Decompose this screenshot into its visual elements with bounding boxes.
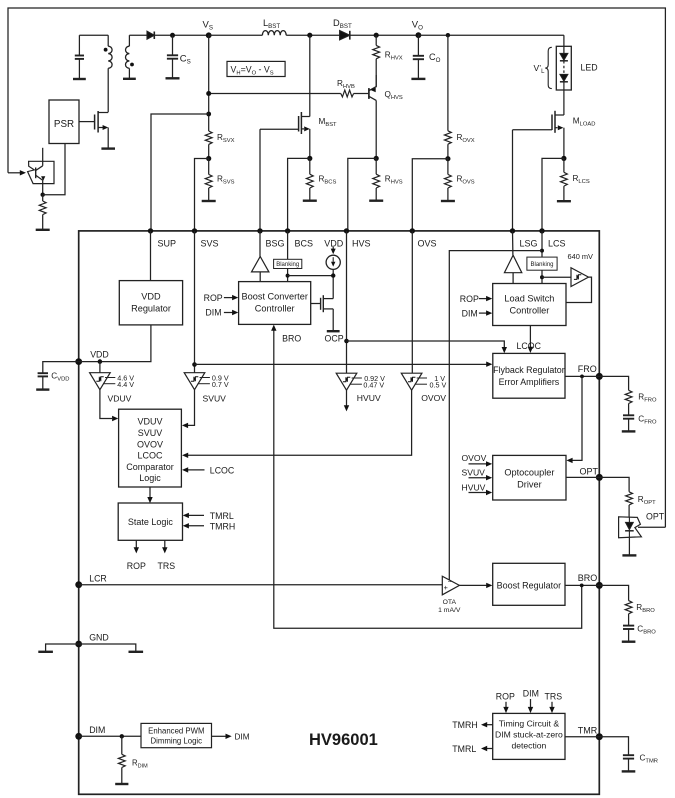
- block State Logic: [118, 503, 182, 540]
- wire GND right internal: [79, 644, 136, 651]
- ground (R-DIM): [115, 783, 128, 785]
- node M-LOAD source junction: [561, 156, 566, 161]
- wire HVS to flyback error amp: [347, 341, 508, 353]
- label DIM input load switch: [462, 308, 493, 318]
- svg-text:SUP: SUP: [158, 239, 177, 249]
- node BRO branch: [580, 584, 584, 588]
- node VS mid-rail junction: [206, 91, 211, 96]
- svg-text:OVOV: OVOV: [462, 453, 487, 463]
- svg-text:GND: GND: [89, 633, 109, 643]
- svg-text:SVUV: SVUV: [462, 467, 486, 477]
- wire SVUV output to comparator logic: [182, 390, 195, 428]
- svg-text:Enhanced PWM: Enhanced PWM: [148, 726, 204, 735]
- wire SVS sense: [195, 159, 209, 231]
- node R-OVX tap on rail: [446, 33, 450, 37]
- svg-text:640 mV: 640 mV: [568, 252, 594, 261]
- wire VO rail to LED string: [418, 34, 564, 36]
- node R-DIM tap: [120, 734, 124, 738]
- wire BRO feedback into boost controller: [271, 325, 582, 629]
- capacitor CS: [167, 35, 191, 77]
- ground (R-LCS): [557, 200, 571, 202]
- node BCS/OCP junction: [286, 274, 290, 278]
- svg-text:State Logic: State Logic: [128, 517, 174, 527]
- wire BRO output: [565, 584, 599, 586]
- ground (opto resistor): [36, 229, 50, 231]
- resistor R-SVX divider top: [205, 35, 234, 158]
- wire BCS sense: [288, 158, 310, 231]
- svg-text:LSG: LSG: [520, 239, 538, 249]
- svg-text:LED: LED: [581, 62, 598, 72]
- resistor R-LCS: [561, 158, 590, 200]
- LED diode 2: [560, 74, 568, 90]
- pin HVS: [344, 228, 371, 248]
- ground (GND internal): [129, 651, 144, 653]
- wire LCS to 640mV comparator: [542, 276, 571, 278]
- node VS: [203, 19, 213, 38]
- resistor R-BRO: [599, 585, 655, 625]
- capacitor C-FRO: [623, 414, 657, 430]
- svg-text:TMRH: TMRH: [210, 521, 235, 531]
- pin OPT: [580, 466, 603, 481]
- label HVUV input opto: [462, 482, 493, 495]
- wire LCS riser through blanking: [541, 231, 543, 284]
- ground (C-TMR): [622, 770, 636, 772]
- svg-text:OVOV: OVOV: [137, 439, 163, 449]
- svg-text:Timing Circuit &: Timing Circuit &: [499, 718, 560, 728]
- pin BCS: [285, 228, 313, 248]
- pin BRO: [578, 573, 603, 589]
- OTA amplifier: [438, 576, 461, 614]
- transformer T1 primary winding: [108, 35, 112, 112]
- svg-text:Error Amplifiers: Error Amplifiers: [499, 377, 560, 387]
- svg-text:HVUV: HVUV: [357, 393, 381, 403]
- block Comparator Logic: [119, 409, 182, 487]
- transistor Q-HVS (PNP): [369, 75, 403, 158]
- node LCS comparator tap: [540, 275, 544, 279]
- gate driver triangle LSG: [504, 231, 521, 284]
- svg-text:HVUV: HVUV: [462, 482, 486, 492]
- IC HV96001 outline: [79, 231, 600, 794]
- resistor R-OVX divider top: [445, 35, 475, 159]
- svg-text:LCR: LCR: [89, 573, 107, 583]
- svg-text:TRS: TRS: [158, 561, 176, 571]
- wire OVS sense: [412, 159, 448, 231]
- optocoupler OPT LED: [619, 511, 665, 537]
- transistor OCP FET: [311, 295, 334, 330]
- ground (R-SVS): [202, 200, 216, 202]
- svg-text:HV96001: HV96001: [309, 731, 378, 749]
- ground (C-FRO): [622, 430, 636, 432]
- wire OVOV output to comparator logic: [182, 390, 412, 458]
- svg-text:VDUV: VDUV: [108, 394, 132, 404]
- svg-text:VDD: VDD: [90, 349, 109, 359]
- wire SVS to flyback error amp: [195, 362, 493, 367]
- svg-text:Blanking: Blanking: [530, 262, 553, 268]
- svg-text:Blanking: Blanking: [276, 262, 299, 268]
- svg-text:OPT: OPT: [580, 466, 599, 476]
- node Cs junction: [170, 33, 175, 38]
- ground (C-BRO): [622, 641, 636, 643]
- current source VDD (OCP bias): [326, 247, 340, 299]
- svg-text:TMR: TMR: [578, 725, 598, 735]
- svg-text:1 mA/V: 1 mA/V: [438, 607, 461, 614]
- wire BCS riser through blanking: [287, 231, 289, 282]
- wire HVUV output arrow: [344, 390, 349, 411]
- wire FRO output: [565, 375, 599, 377]
- ground (secondary): [123, 78, 136, 80]
- transistor M-BST (boost switch): [260, 35, 337, 158]
- svg-text:DIM stuck-at-zero: DIM stuck-at-zero: [495, 729, 563, 739]
- transistor M-LOAD (load switch): [513, 90, 596, 158]
- svg-text:PSR: PSR: [54, 119, 74, 130]
- svg-text:BRO: BRO: [282, 334, 301, 344]
- label DIM input timing: [523, 689, 539, 714]
- svg-text:Driver: Driver: [517, 479, 542, 489]
- svg-text:TMRL: TMRL: [210, 511, 234, 521]
- svg-text:LCOC: LCOC: [210, 465, 235, 475]
- label TRS input timing: [545, 691, 563, 713]
- label TMRH stub input: [183, 521, 236, 531]
- block Blanking (boost): [274, 259, 302, 268]
- svg-text:ROP: ROP: [496, 691, 515, 701]
- svg-text:SVUV: SVUV: [138, 428, 163, 438]
- wire BSG riser: [259, 129, 261, 231]
- svg-text:0.7 V: 0.7 V: [212, 380, 229, 389]
- svg-text:DIM: DIM: [205, 308, 221, 318]
- label HVUV: [357, 393, 381, 403]
- wire BCS to current source node: [288, 275, 334, 277]
- wire HVS sense: [348, 158, 376, 231]
- resistor R-DIM: [118, 736, 148, 783]
- svg-text:LCOC: LCOC: [517, 341, 542, 351]
- pin LSG: [510, 228, 538, 248]
- wire comparator logic to state logic: [147, 487, 152, 503]
- svg-text:Comparator: Comparator: [126, 462, 174, 472]
- label VDUV: [108, 394, 132, 404]
- pin GND: [75, 633, 108, 648]
- label OVOV: [421, 393, 446, 403]
- LED diode 1: [560, 53, 568, 60]
- wire TRS output state logic: [158, 540, 176, 571]
- wire LED dashed segment: [563, 61, 565, 74]
- comparator 640 mV: [566, 252, 593, 303]
- wire ROP output state logic: [127, 540, 146, 571]
- ground (GND external): [38, 651, 53, 653]
- svg-text:Regulator: Regulator: [131, 304, 171, 314]
- svg-text:ROP: ROP: [127, 561, 146, 571]
- node junction opto emitter / PSR: [41, 193, 45, 197]
- ground (R-HVS): [369, 199, 383, 201]
- ground (R-OVS): [441, 200, 455, 202]
- svg-text:SVS: SVS: [201, 239, 219, 249]
- node Q-HVS collector junction: [374, 156, 379, 161]
- block Optocoupler Driver: [493, 455, 566, 500]
- pin BSG: [257, 228, 284, 248]
- box V-H equation: [227, 61, 285, 76]
- block Enhanced PWM Dimming Logic: [141, 723, 212, 747]
- block Flyback Regulator Error Amplifiers: [493, 353, 565, 398]
- node VO: [412, 19, 423, 38]
- svg-text:BCS: BCS: [295, 239, 314, 249]
- comparator VDUV: [90, 362, 135, 390]
- svg-text:0.5 V: 0.5 V: [430, 380, 447, 389]
- wire GND left external: [46, 644, 79, 651]
- wire VDD Regulator output to VDD rail: [79, 325, 151, 362]
- svg-text:Boost Converter: Boost Converter: [242, 291, 308, 301]
- wire OPT output: [566, 476, 599, 478]
- wire opto LED cathode to ground: [628, 538, 630, 555]
- block PSR controller: [49, 100, 79, 144]
- capacitor input bulk (unlabeled): [75, 35, 84, 78]
- node R-SVX/R-SVS junction: [206, 156, 211, 161]
- resistor R-FRO: [599, 376, 657, 415]
- wire LSG riser: [512, 130, 514, 231]
- node R-OVX/R-OVS junction: [445, 156, 450, 161]
- svg-text:BSG: BSG: [266, 239, 285, 249]
- ground (C-VDD): [36, 388, 49, 390]
- svg-text:OTA: OTA: [443, 599, 457, 606]
- svg-text:TRS: TRS: [545, 691, 563, 701]
- label ROP input timing: [496, 691, 515, 713]
- wire OTA output to boost regulator: [459, 583, 492, 588]
- resistor (opto emitter, unlabeled): [39, 195, 46, 229]
- comparator SVUV: [184, 231, 229, 390]
- label TMRL stub input: [183, 511, 234, 521]
- svg-text:0.47 V: 0.47 V: [363, 380, 384, 389]
- svg-text:TMRL: TMRL: [452, 744, 476, 754]
- wire LCOC output: [517, 326, 542, 354]
- node M-BST drain on rail: [307, 33, 312, 38]
- wire SUP connection: [151, 114, 209, 231]
- inductor L-BST: [262, 18, 286, 35]
- node LCS to OTA tap: [540, 249, 544, 253]
- svg-text:−: −: [448, 579, 452, 586]
- svg-text:DIM: DIM: [523, 689, 539, 699]
- label DIM input boost: [205, 308, 238, 318]
- svg-text:Flyback Regulator: Flyback Regulator: [493, 365, 565, 375]
- ground (CS): [166, 77, 180, 79]
- block Timing Circuit & DIM stuck-at-zero detection: [493, 713, 565, 759]
- comparator OVOV: [401, 231, 446, 390]
- transistor M-PSR (primary switch): [79, 111, 108, 148]
- pin TMR: [578, 725, 603, 740]
- opto-transistor (PSR feedback photocoupler): [28, 148, 54, 195]
- phase dot primary: [104, 48, 108, 52]
- block Load Switch Controller: [493, 284, 566, 326]
- LED string box: [556, 46, 571, 90]
- svg-text:Logic: Logic: [139, 473, 161, 483]
- resistor R-HVX: [373, 35, 403, 87]
- resistor R-HVB: [209, 79, 369, 97]
- wire outer optical feedback loop (top/left/right): [8, 8, 665, 527]
- pin LCR: [75, 573, 107, 588]
- svg-text:4.4 V: 4.4 V: [117, 380, 134, 389]
- wire DIM output arrow: [212, 733, 250, 742]
- capacitor CO: [413, 35, 441, 78]
- node M-BST source junction: [307, 156, 312, 161]
- wire TMR output: [565, 736, 599, 738]
- svg-text:detection: detection: [511, 740, 546, 750]
- block VDD Regulator: [119, 281, 182, 325]
- ground (OCP): [325, 331, 344, 343]
- wire rail into LED string: [563, 35, 565, 53]
- resistor R-SVS: [205, 159, 234, 201]
- svg-text:SVUV: SVUV: [203, 394, 227, 404]
- pin DIM-left: [75, 725, 105, 740]
- pin SVS: [192, 228, 219, 248]
- svg-text:HVS: HVS: [352, 239, 371, 249]
- svg-text:DIM: DIM: [235, 733, 250, 742]
- wire DIM to dimming logic: [79, 735, 141, 737]
- svg-text:Controller: Controller: [255, 303, 295, 313]
- label BRO at boost controller: [282, 334, 301, 344]
- capacitor C-VDD: [38, 362, 79, 389]
- node SVS to flyback tap: [192, 362, 197, 367]
- wire LCS sense: [542, 158, 564, 231]
- pin SUP: [148, 228, 176, 248]
- svg-text:VDUV: VDUV: [137, 417, 162, 427]
- svg-text:Optocoupler: Optocoupler: [504, 467, 554, 477]
- gate driver triangle BSG: [252, 231, 269, 282]
- svg-text:OVOV: OVOV: [421, 393, 446, 403]
- wire SUP riser to VDD Regulator: [150, 231, 152, 281]
- transformer T1 secondary winding: [125, 35, 147, 78]
- svg-text:Dimming Logic: Dimming Logic: [151, 736, 203, 745]
- svg-text:OVS: OVS: [418, 239, 437, 249]
- label LCOC stub input: [182, 465, 235, 475]
- block Boost Regulator: [493, 563, 565, 605]
- wire VS rail to boost inductor: [209, 34, 263, 36]
- wire arrow into opto-transistor U-PSR: [8, 170, 26, 175]
- svg-text:LCS: LCS: [548, 239, 566, 249]
- svg-text:DIM: DIM: [89, 725, 105, 735]
- pin VDD label: [324, 239, 344, 249]
- label TMRL output: [452, 744, 492, 754]
- svg-text:OCP: OCP: [325, 334, 344, 344]
- svg-text:Controller: Controller: [509, 305, 549, 315]
- svg-text:BRO: BRO: [578, 573, 598, 583]
- resistor R-HVS: [373, 158, 403, 200]
- label ROP input boost: [204, 293, 239, 303]
- svg-text:ROP: ROP: [460, 294, 479, 304]
- svg-text:OPT: OPT: [646, 511, 665, 521]
- svg-text:TMRH: TMRH: [452, 720, 477, 730]
- ground (OPT LED): [622, 554, 636, 556]
- label SVUV input opto: [462, 467, 493, 480]
- diode secondary rectifier (unlabeled): [147, 31, 209, 39]
- label ROP input load switch: [460, 294, 493, 304]
- node current source output: [331, 273, 335, 277]
- wire inductor to M-BST drain node: [286, 34, 339, 36]
- pin LCS: [539, 228, 565, 248]
- label HV96001: [309, 731, 378, 749]
- svg-text:DIM: DIM: [462, 308, 478, 318]
- label LED: [581, 62, 598, 72]
- label TMRH output: [452, 720, 492, 730]
- ground (input cap): [73, 78, 86, 80]
- block Blanking (load switch): [527, 257, 557, 270]
- pin FRO: [578, 364, 603, 380]
- ground (R-BCS): [303, 199, 317, 201]
- ground (M-PSR source): [101, 147, 115, 149]
- wire VDUV output to comparator logic: [100, 390, 118, 422]
- diode D-BST: [333, 18, 418, 40]
- ground (CO): [411, 78, 425, 80]
- node VDUV tap on VDD rail: [98, 359, 103, 364]
- node FRO branch: [580, 375, 584, 379]
- resistor R-OVS: [445, 159, 475, 201]
- pin VDD-left: [75, 349, 108, 365]
- node R-HVX tap: [374, 33, 379, 38]
- capacitor C-BRO: [623, 625, 656, 641]
- resistor R-BCS: [306, 158, 336, 200]
- svg-text:FRO: FRO: [578, 364, 597, 374]
- phase dot secondary: [130, 63, 134, 67]
- label OVOV input opto: [462, 453, 493, 466]
- block Boost Converter Controller: [239, 282, 311, 325]
- wire input cap to transformer primary: [79, 34, 108, 36]
- wire LCS to OTA: [449, 251, 542, 581]
- capacitor C-TMR: [599, 737, 658, 771]
- wire LCR to OTA: [79, 584, 443, 586]
- wire FRO to optocoupler driver: [566, 376, 582, 463]
- node HVS to flyback tap: [344, 339, 349, 344]
- svg-text:VDD: VDD: [141, 292, 161, 302]
- svg-text:LCOC: LCOC: [137, 451, 163, 461]
- label SVUV: [203, 394, 227, 404]
- wire PSR to opto junction: [43, 144, 65, 195]
- svg-text:Boost Regulator: Boost Regulator: [497, 580, 562, 590]
- svg-text:ROP: ROP: [204, 293, 223, 303]
- pin OVS: [410, 228, 437, 248]
- svg-text:VDD: VDD: [324, 239, 344, 249]
- resistor R-OPT: [599, 477, 656, 516]
- wire opto LED to feedback line: [638, 526, 665, 528]
- brace V'L: [534, 47, 552, 88]
- svg-text:Load Switch: Load Switch: [504, 293, 554, 303]
- node SUP tap: [206, 112, 211, 117]
- comparator HVUV: [336, 231, 385, 390]
